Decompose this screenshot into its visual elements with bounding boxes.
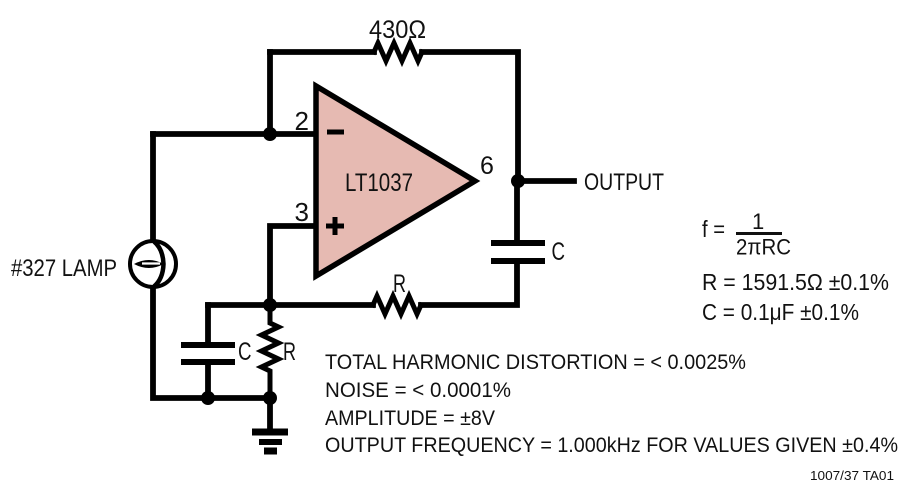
node dot inverting input bbox=[263, 127, 277, 141]
svg-text:OUTPUT: OUTPUT bbox=[584, 169, 664, 196]
svg-text:f =: f = bbox=[702, 216, 725, 242]
node dot non-inverting junction bbox=[263, 298, 277, 312]
formula fraction bar bbox=[736, 232, 782, 235]
op-amp plus sign bbox=[326, 217, 344, 235]
node dot ground junction bbox=[263, 391, 277, 405]
svg-text:C: C bbox=[552, 238, 566, 266]
svg-text:3: 3 bbox=[295, 197, 309, 227]
svg-text:AMPLITUDE = ±8V: AMPLITUDE = ±8V bbox=[325, 407, 495, 430]
wire lamp bottom to ground rail bbox=[153, 287, 270, 398]
wire left capacitor branch upper bbox=[205, 305, 211, 342]
svg-text:NOISE = < 0.0001%: NOISE = < 0.0001% bbox=[325, 379, 511, 402]
ground stem bbox=[267, 398, 273, 429]
lamp filament arcs bbox=[154, 242, 164, 287]
wire top-left vertical to inverting input node bbox=[267, 52, 273, 134]
svg-text:430Ω: 430Ω bbox=[369, 16, 426, 44]
svg-text:2πRC: 2πRC bbox=[736, 235, 791, 260]
op-amp minus sign bbox=[327, 130, 344, 135]
wire pin3 horizontal and vertical bbox=[270, 226, 316, 305]
lamp filament lens bbox=[134, 260, 164, 268]
resistor R feedback zigzag bbox=[373, 296, 421, 314]
svg-text:2: 2 bbox=[295, 106, 309, 136]
wire left branch vertical (to lamp) bbox=[150, 134, 156, 241]
formula f = 1/2πRC bbox=[702, 209, 791, 260]
wire top loop right segment bbox=[422, 52, 518, 181]
wire left capacitor branch lower bbox=[205, 364, 211, 398]
node dot output bbox=[511, 174, 525, 188]
svg-text:1: 1 bbox=[752, 209, 764, 234]
wire output bbox=[518, 178, 574, 184]
svg-text:OUTPUT FREQUENCY = 1.000kHz FO: OUTPUT FREQUENCY = 1.000kHz FOR VALUES G… bbox=[325, 434, 898, 457]
svg-text:#327 LAMP: #327 LAMP bbox=[11, 255, 117, 282]
resistor R vertical (left) bbox=[262, 305, 279, 398]
wire mid horizontal left of feedback R bbox=[208, 302, 373, 308]
svg-text:R: R bbox=[283, 338, 296, 366]
svg-text:C: C bbox=[238, 338, 252, 366]
svg-text:TOTAL HARMONIC DISTORTION = <: TOTAL HARMONIC DISTORTION = < 0.0025% bbox=[325, 351, 746, 374]
lamp lens highlight bbox=[142, 262, 160, 264]
svg-text:LT1037: LT1037 bbox=[345, 169, 413, 197]
wire right branch above capacitor C bbox=[514, 181, 520, 240]
wire mid horizontal right of feedback R bbox=[421, 264, 517, 305]
node dot C bottom bbox=[201, 391, 215, 405]
svg-text:R: R bbox=[393, 270, 406, 298]
wire pin2 horizontal bbox=[153, 131, 316, 137]
svg-text:6: 6 bbox=[480, 152, 494, 180]
op-amp U1 LT1037 triangle bbox=[316, 86, 475, 276]
capacitor C left plates bbox=[181, 345, 235, 362]
svg-text:C = 0.1μF ±0.1%: C = 0.1μF ±0.1% bbox=[702, 299, 859, 325]
lamp #327 circle bbox=[130, 241, 176, 287]
svg-text:R = 1591.5Ω ±0.1%: R = 1591.5Ω ±0.1% bbox=[702, 269, 889, 295]
ground symbol bars bbox=[252, 432, 288, 451]
svg-text:1007/37 TA01: 1007/37 TA01 bbox=[810, 468, 894, 483]
capacitor C right plates bbox=[491, 243, 545, 261]
wire top loop left segment bbox=[270, 49, 374, 55]
resistor 430Ω zigzag bbox=[374, 43, 422, 61]
